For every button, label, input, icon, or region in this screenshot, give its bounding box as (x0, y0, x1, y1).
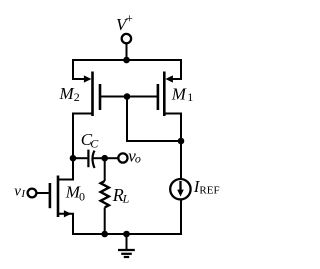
svg-text:REF: REF (199, 184, 219, 196)
svg-text:M: M (59, 84, 75, 103)
svg-text:L: L (122, 191, 130, 205)
svg-text:v: v (14, 183, 21, 199)
svg-text:1: 1 (187, 90, 193, 104)
svg-text:o: o (135, 152, 141, 166)
svg-text:2: 2 (74, 90, 80, 104)
svg-text:M: M (171, 84, 187, 103)
svg-text:0: 0 (79, 189, 85, 203)
svg-text:C: C (90, 136, 99, 150)
svg-text:+: + (126, 10, 133, 25)
